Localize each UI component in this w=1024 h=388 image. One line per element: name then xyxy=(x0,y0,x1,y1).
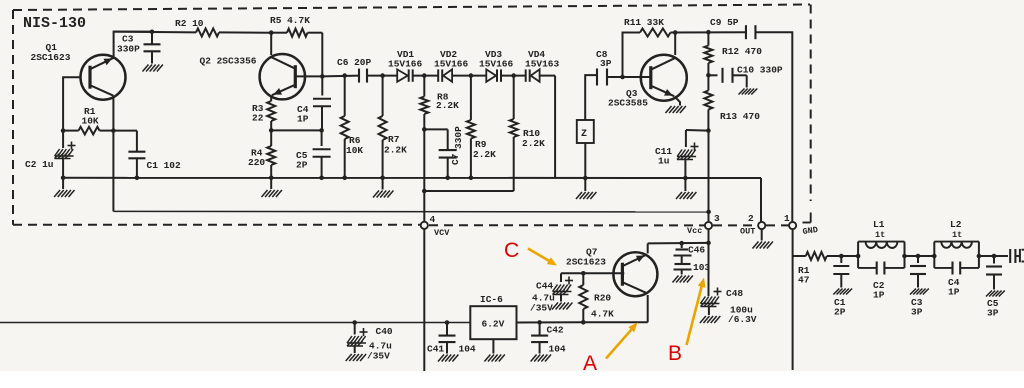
wire Q3 emitter to ground xyxy=(666,97,686,114)
label C3 330P xyxy=(117,34,140,55)
svg-text:C2 1u: C2 1u xyxy=(25,159,54,170)
node C5 bottom xyxy=(319,176,324,181)
node tank1 left xyxy=(856,254,861,259)
wire R11 left vertical xyxy=(623,33,641,78)
IC-6 box xyxy=(470,306,516,339)
label C9 5P xyxy=(710,17,739,28)
label R20 4.7K xyxy=(591,293,614,320)
node C3f top xyxy=(916,254,921,259)
svg-text:2.2K: 2.2K xyxy=(522,138,545,149)
svg-text:Vcc: Vcc xyxy=(687,226,702,236)
node tank1 right xyxy=(902,254,907,259)
svg-text:1t: 1t xyxy=(952,230,962,240)
label Q7 2SC1623 xyxy=(566,247,606,268)
capacitor C4 xyxy=(313,76,331,130)
label R1 47 xyxy=(798,265,810,286)
svg-text:2P: 2P xyxy=(834,307,846,318)
label 6.2V xyxy=(482,319,505,330)
wire Vcc rail xyxy=(113,131,708,212)
capacitor C1 filter xyxy=(833,256,849,288)
svg-text:/35V: /35V xyxy=(530,303,553,314)
label C8 3P xyxy=(596,49,612,69)
svg-text:103: 103 xyxy=(693,262,710,273)
svg-text:2SC1623: 2SC1623 xyxy=(566,257,606,268)
capacitor C46 xyxy=(674,243,692,274)
svg-text:Z: Z xyxy=(581,129,587,140)
capacitor C7 xyxy=(439,129,457,177)
wire bottom supply rail right xyxy=(517,321,584,323)
svg-text:C40: C40 xyxy=(376,326,393,337)
inductor L1 tank xyxy=(858,242,904,268)
diode VD1 xyxy=(397,69,413,81)
svg-text:C6 20P: C6 20P xyxy=(337,57,372,68)
resistor R3 xyxy=(267,101,275,121)
svg-text:IC-6: IC-6 xyxy=(480,294,503,305)
resistor R13 xyxy=(704,75,712,130)
svg-text:3P: 3P xyxy=(911,307,923,318)
svg-text:330P: 330P xyxy=(117,44,140,55)
label C42 104 xyxy=(547,325,566,355)
node Q2 base junction xyxy=(320,74,325,79)
svg-text:GND: GND xyxy=(802,225,819,237)
ground under C41 xyxy=(438,355,458,362)
node bottom rail R6 xyxy=(342,176,347,181)
resistor R9 xyxy=(467,76,475,178)
label C44 4.7u/35V xyxy=(530,281,555,314)
node C4 bottom junction xyxy=(319,128,324,133)
label R2 10 xyxy=(175,18,204,29)
label IC-6 xyxy=(480,294,503,305)
node tank2 right xyxy=(977,254,982,259)
ground under pin2 xyxy=(753,229,773,248)
pin 3 Vcc xyxy=(705,222,712,229)
capacitor output coupling xyxy=(1010,249,1015,263)
label C3 3P xyxy=(911,297,923,318)
label C7 330P rotated xyxy=(450,126,464,165)
wire pin4 vertical xyxy=(423,191,425,371)
wire Q7 collector down xyxy=(583,295,647,322)
svg-text:3P: 3P xyxy=(600,58,612,69)
label Z xyxy=(581,129,587,140)
svg-text:/6.3V: /6.3V xyxy=(728,314,757,325)
wire R4 bottom xyxy=(270,165,272,178)
pin 2 OUT xyxy=(758,222,765,229)
capacitor C41 xyxy=(439,323,456,354)
resistor R12 xyxy=(704,32,712,75)
wire junction to C4C5 xyxy=(271,129,321,131)
svg-text:104: 104 xyxy=(549,344,566,355)
diode VD3 xyxy=(486,69,501,81)
ground under R4 xyxy=(262,178,282,197)
wire filter main xyxy=(793,255,806,257)
node C3 top xyxy=(150,30,155,35)
wire C8 to Q3 base xyxy=(607,76,649,78)
svg-text:R12 470: R12 470 xyxy=(722,46,762,57)
resistor R4 xyxy=(267,146,275,165)
svg-text:1: 1 xyxy=(784,213,790,224)
wire output edge xyxy=(1015,249,1024,262)
ground under C11 xyxy=(676,178,696,199)
label R3 22 xyxy=(252,103,264,124)
node R6 top xyxy=(342,73,347,78)
label GND xyxy=(802,225,819,237)
label C40 4.7u/35V xyxy=(367,326,393,362)
node C1f top xyxy=(839,254,844,259)
node C11 bottom xyxy=(683,176,688,181)
annotation arrow C xyxy=(528,249,557,266)
label Q1 xyxy=(31,42,71,63)
capacitor C10 xyxy=(708,68,746,88)
node R1 left xyxy=(61,128,66,133)
ground under C3f xyxy=(910,289,929,295)
node R20 bottom xyxy=(581,320,586,325)
node R1 right xyxy=(111,128,116,133)
svg-text:330P: 330P xyxy=(453,126,464,149)
label Q2 2SC3356 xyxy=(200,56,257,67)
svg-text:104: 104 xyxy=(459,344,476,355)
node R9 top xyxy=(469,73,474,78)
annotation letter B xyxy=(668,342,682,365)
wire R2 to R5 junction xyxy=(219,31,271,33)
svg-text:C9 5P: C9 5P xyxy=(710,17,739,28)
svg-text:2SC1623: 2SC1623 xyxy=(31,52,71,63)
label pin4 xyxy=(430,214,436,225)
wire R5 right down to base node xyxy=(321,33,323,77)
capacitor C40 (electrolytic) xyxy=(347,323,368,354)
node tank2 left xyxy=(932,254,937,259)
ground under C10 xyxy=(739,89,758,95)
svg-text:1t: 1t xyxy=(875,230,885,240)
node R8 top xyxy=(422,73,427,78)
wire R13 junction to C11 xyxy=(686,130,709,147)
wire Q2 emitter down xyxy=(270,97,272,101)
label R10 2.2K xyxy=(522,128,545,149)
svg-text:C44: C44 xyxy=(536,281,553,292)
label C2 1u xyxy=(25,159,54,170)
resistor R11 xyxy=(640,29,671,37)
ground under C2 xyxy=(54,178,74,197)
ground under C46 xyxy=(673,276,693,283)
svg-text:15V166: 15V166 xyxy=(479,59,514,70)
node R4 bottom xyxy=(269,176,274,181)
label pin1 xyxy=(784,213,790,224)
label R13 470 xyxy=(720,111,760,122)
svg-text:C10 330P: C10 330P xyxy=(737,65,783,76)
ground under R7 xyxy=(373,178,393,198)
resistor R5 xyxy=(271,29,322,37)
capacitor C42 xyxy=(531,322,548,353)
annotation arrow A xyxy=(606,323,638,359)
label L1 1t xyxy=(873,219,885,240)
svg-text:6.2V: 6.2V xyxy=(482,319,505,330)
capacitor C11 (electrolytic) xyxy=(677,143,699,179)
svg-text:NIS-130: NIS-130 xyxy=(23,15,86,32)
svg-text:C1 102: C1 102 xyxy=(147,160,182,171)
node bottom rail R7 xyxy=(380,176,385,181)
label R6 10K xyxy=(346,135,363,156)
node C46 top xyxy=(679,241,684,246)
wire Q3 collector up xyxy=(674,33,676,56)
node Q7 rail right xyxy=(706,241,711,246)
label VD3 15V166 xyxy=(479,49,514,70)
node Q2 collector junction xyxy=(269,30,274,35)
svg-text:1P: 1P xyxy=(873,290,885,301)
wire Z top xyxy=(585,75,596,120)
svg-text:4: 4 xyxy=(430,214,436,225)
label C48 100u/6.3V xyxy=(726,288,757,325)
resistor R1 filter xyxy=(806,252,827,260)
wire Q1 base xyxy=(63,77,79,130)
wire R1 to tank1 xyxy=(827,255,858,257)
node R8 bottom junction xyxy=(422,127,427,132)
svg-text:3: 3 xyxy=(714,213,720,224)
label R12 470 xyxy=(722,46,762,57)
label R5 4.7K xyxy=(270,15,310,26)
node Vcc rail right xyxy=(706,210,711,215)
svg-text:C46: C46 xyxy=(688,245,705,256)
label C41 104 xyxy=(427,344,476,355)
wire pin3 down xyxy=(708,229,710,296)
node Z junction xyxy=(583,176,588,181)
svg-text:15V166: 15V166 xyxy=(388,59,423,70)
capacitor C6 xyxy=(359,69,367,83)
capacitor C2 (electrolytic) xyxy=(55,131,76,178)
wire varactor rail xyxy=(322,75,555,78)
wire Q7 top rail xyxy=(648,243,709,254)
ground under C44 xyxy=(552,303,572,310)
label R8 2.2K xyxy=(436,92,459,112)
svg-text:R7: R7 xyxy=(388,134,400,145)
capacitor C3 xyxy=(144,32,161,64)
resistor R6 xyxy=(341,76,349,178)
wire Q2 collector up xyxy=(270,33,272,55)
svg-text:10K: 10K xyxy=(82,116,99,127)
capacitor C5 xyxy=(313,130,331,177)
wire pin3 vertical upper xyxy=(708,131,710,222)
wire R3 to R4 xyxy=(270,121,272,146)
label C4 1P xyxy=(948,277,960,298)
pin 4 VCV xyxy=(421,222,428,229)
svg-text:2.2K: 2.2K xyxy=(436,100,459,111)
label C6 20P xyxy=(337,57,372,68)
wire bottom supply rail left xyxy=(0,322,470,324)
svg-text:R2 10: R2 10 xyxy=(175,18,204,29)
diode VD4 xyxy=(526,69,540,81)
node C5f top xyxy=(992,254,997,259)
svg-text:L1: L1 xyxy=(873,219,885,230)
ground under C42 xyxy=(531,355,551,362)
svg-text:4.7K: 4.7K xyxy=(591,309,614,320)
svg-text:R11 33K: R11 33K xyxy=(624,17,664,28)
resistor R20 xyxy=(579,273,587,322)
svg-text:VCV: VCV xyxy=(434,228,450,238)
wire R11 to C9 xyxy=(671,31,747,33)
svg-text:B: B xyxy=(668,342,682,365)
crystal Z box xyxy=(577,120,594,178)
svg-text:1P: 1P xyxy=(297,114,309,125)
wire Q2 base right xyxy=(296,75,323,77)
node C2 bottom xyxy=(61,176,66,181)
svg-text:2SC3585: 2SC3585 xyxy=(608,98,648,109)
svg-text:2P: 2P xyxy=(296,160,308,171)
label pin2 xyxy=(748,213,754,224)
annotation arrow B xyxy=(687,278,706,346)
capacitor C9 xyxy=(746,25,756,39)
node R12 top xyxy=(706,30,711,35)
label L2 1t xyxy=(950,219,962,240)
svg-text:2.2K: 2.2K xyxy=(473,149,496,160)
svg-text:/35V: /35V xyxy=(367,351,390,362)
inductor L2 tank xyxy=(934,242,979,268)
svg-text:47: 47 xyxy=(798,275,810,286)
svg-text:C: C xyxy=(504,239,519,262)
capacitor C4 filter (in tank) xyxy=(953,262,961,275)
resistor R2 xyxy=(196,28,219,36)
node R20 top xyxy=(581,271,586,276)
label OUT xyxy=(740,227,755,237)
node Q3 collector top xyxy=(673,30,678,35)
wire VD4 down to bottom rail xyxy=(554,76,556,178)
wire R8 junction to C7 xyxy=(424,128,447,130)
title NIS-130 xyxy=(23,15,86,32)
ground under Z xyxy=(576,178,596,199)
capacitor C48 (electrolytic) xyxy=(700,288,721,316)
wire top rail segment xyxy=(114,31,196,34)
node C1 bottom xyxy=(135,176,140,181)
label C5 2P xyxy=(296,150,308,171)
resistor R1 xyxy=(63,127,113,135)
resistor R8 xyxy=(420,76,428,130)
svg-text:15V166: 15V166 xyxy=(434,59,469,70)
ground under C1f xyxy=(833,289,852,295)
label VD4 15V163 xyxy=(525,49,560,70)
ground under C3 xyxy=(143,65,163,72)
svg-text:C48: C48 xyxy=(726,288,743,299)
svg-text:22: 22 xyxy=(252,113,264,124)
dashed module border (NIS-130 box) xyxy=(13,5,811,226)
label C2 1P xyxy=(873,280,885,301)
label R4 220 xyxy=(248,148,265,169)
capacitor C5 filter xyxy=(986,256,1002,290)
label C1 102 xyxy=(147,160,182,171)
label pin3 xyxy=(714,213,720,224)
label VD2 15V166 xyxy=(434,49,469,70)
svg-text:C42: C42 xyxy=(547,325,564,336)
node R11 bottom xyxy=(620,75,625,80)
node C42 xyxy=(537,320,542,325)
capacitor C1 xyxy=(128,131,145,178)
ground under IC-6 xyxy=(484,339,504,361)
wire Q1 collector down xyxy=(112,96,114,131)
annotation letter A xyxy=(583,352,597,375)
wire pin1 down xyxy=(792,229,794,370)
svg-text:2: 2 xyxy=(748,213,754,224)
node C41 xyxy=(445,320,450,325)
resistor R10 xyxy=(510,76,518,191)
label C11 1u xyxy=(655,146,672,167)
label VCV xyxy=(434,228,450,238)
wire C9 to pin1 xyxy=(756,32,793,222)
svg-text:1P: 1P xyxy=(948,287,960,298)
node R10 top xyxy=(511,73,516,78)
svg-text:L2: L2 xyxy=(950,219,962,230)
svg-text:R5 4.7K: R5 4.7K xyxy=(270,15,310,26)
transistor Q7 xyxy=(613,252,657,296)
label R9 2.2K xyxy=(473,139,496,160)
label C4 1P xyxy=(297,104,309,125)
svg-text:1u: 1u xyxy=(658,156,670,167)
label Q3 2SC3585 xyxy=(608,88,648,109)
annotation letter C xyxy=(504,239,519,262)
label R1 xyxy=(82,106,99,127)
node C40 xyxy=(352,320,357,325)
label C1 2P xyxy=(834,297,846,318)
wire bottom rail xyxy=(63,178,761,222)
node R7 top xyxy=(380,73,385,78)
label R11 33K xyxy=(624,17,664,28)
svg-text:R13 470: R13 470 xyxy=(720,111,760,122)
node C7 bottom xyxy=(445,176,450,181)
label C10 330P xyxy=(737,65,783,76)
node VCV link left xyxy=(422,189,427,194)
resistor R7 xyxy=(379,76,387,178)
svg-text:A: A xyxy=(583,352,597,375)
node R3 R4 junction xyxy=(269,128,274,133)
wire tank2 out xyxy=(979,255,1008,257)
svg-text:R20: R20 xyxy=(594,293,611,304)
wire Q7 base xyxy=(561,273,624,282)
label R7 2.2K xyxy=(384,134,407,156)
node C10 junction xyxy=(706,73,711,78)
ground under C5f xyxy=(986,291,1005,297)
capacitor C3 filter xyxy=(910,256,926,288)
svg-text:10K: 10K xyxy=(346,145,363,156)
capacitor C2 filter (in tank) xyxy=(877,262,885,275)
svg-text:220: 220 xyxy=(248,157,265,168)
wire VCV link xyxy=(424,129,513,191)
svg-text:2.2K: 2.2K xyxy=(384,145,407,156)
transistor Q2 xyxy=(260,54,305,99)
label C46 103 xyxy=(688,245,710,274)
wire tank1 to tank2 xyxy=(905,255,935,257)
svg-text:Q2 2SC3356: Q2 2SC3356 xyxy=(200,56,257,67)
node R9 bottom xyxy=(469,176,474,181)
transistor Q1 xyxy=(81,55,126,100)
svg-text:C41: C41 xyxy=(427,344,444,355)
transistor Q3 xyxy=(641,55,687,101)
label C5 3P xyxy=(987,298,999,319)
svg-text:OUT: OUT xyxy=(740,227,755,237)
svg-text:C7: C7 xyxy=(450,153,461,165)
label VD1 15V166 xyxy=(388,49,423,70)
diode VD2 xyxy=(438,69,452,81)
capacitor C8 xyxy=(597,69,607,86)
wire R1 junction to C1 xyxy=(113,130,136,132)
svg-text:3P: 3P xyxy=(987,308,999,319)
label Vcc xyxy=(687,226,702,236)
svg-text:15V163: 15V163 xyxy=(525,59,560,70)
capacitor C44 (electrolytic) xyxy=(553,277,574,302)
node R13 bottom xyxy=(706,128,711,133)
wire Q1 emitter to top rail xyxy=(114,32,152,58)
ground under C40 xyxy=(346,354,366,361)
pin 1 GND xyxy=(789,222,796,229)
ground under C48 xyxy=(700,316,720,323)
